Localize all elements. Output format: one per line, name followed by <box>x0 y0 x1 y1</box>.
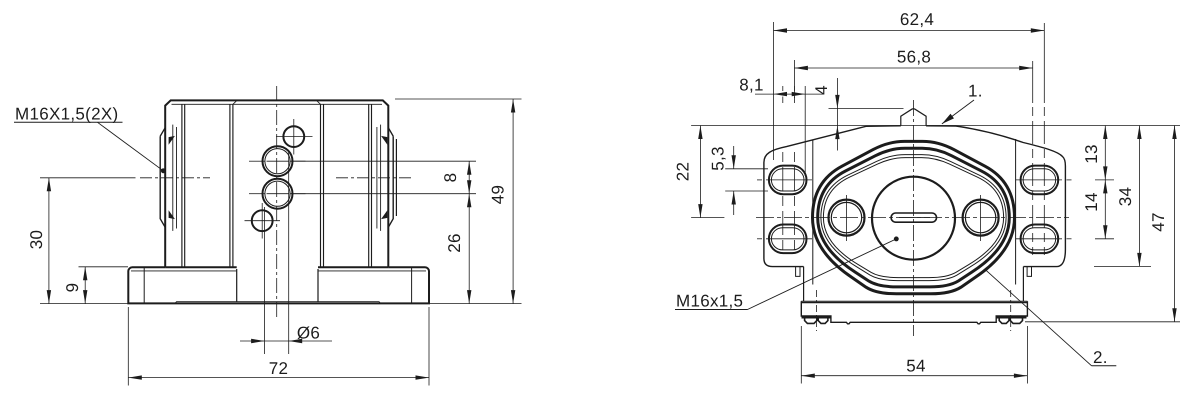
right view: center slot inner line <box>899 217 930 219</box>
svg-text:4: 4 <box>812 85 831 95</box>
right view: dim 56,8 arrow right <box>1019 66 1032 70</box>
left view: base top edge under body <box>165 266 388 268</box>
left view: center pedestal right edge <box>317 269 319 302</box>
right view: boss face inner curve <box>823 158 1003 278</box>
right view: dim 54 ext line right <box>1026 326 1028 384</box>
svg-text:8: 8 <box>441 173 460 183</box>
right view: right slots drill centerline x=1044.3 <box>1043 23 1045 255</box>
right view: center slot <box>891 213 936 222</box>
right view: dim 56,8 arrow left <box>794 66 808 70</box>
right view: boss outer edge curve <box>813 141 1015 293</box>
right view: dim 34 text <box>1116 187 1135 207</box>
right view: plate lower-left edge to base <box>803 267 805 302</box>
right view: dim 5,3 line <box>733 146 735 215</box>
svg-text:Ø6: Ø6 <box>297 324 320 343</box>
svg-text:8,1: 8,1 <box>739 76 764 95</box>
right view: right port vertical centerline <box>980 195 982 241</box>
left view: dim 9 top reference line <box>79 266 129 268</box>
svg-text:54: 54 <box>906 357 926 376</box>
right view: top oval row centerline left <box>757 179 812 181</box>
right view: o-ring groove inner curve <box>821 155 1006 281</box>
right view: left port inner circle <box>831 202 861 232</box>
left view: column top chamfer line left <box>233 100 237 104</box>
right view: bottom reference ext line <box>1025 321 1180 323</box>
right view: horizontal centerline <box>691 217 1069 219</box>
right view: label 1. leader arrowhead <box>942 114 954 124</box>
right view: dim 14 text <box>1082 192 1101 212</box>
left view: dim 8 arrow down <box>467 180 471 194</box>
svg-text:5,3: 5,3 <box>709 146 728 171</box>
right view: dim 34 arrow down <box>1137 253 1141 267</box>
left view: dim 26 arrow up <box>467 194 471 208</box>
left view: right boss top chamfer mark <box>382 137 387 144</box>
right view: base right foot 2 <box>1010 318 1022 323</box>
svg-text:56,8: 56,8 <box>897 48 931 67</box>
left view: label M16X1,5(2X) text <box>15 105 118 124</box>
right view: left port vertical centerline <box>846 195 848 241</box>
right view: dim 13 line <box>1104 126 1106 180</box>
right view: center bore circle <box>872 177 955 260</box>
right view: dim 8,1 line <box>755 93 824 95</box>
left view: housing column edge line 1 <box>181 104 183 267</box>
right view: dim 62,4 arrow left <box>774 28 788 32</box>
left view: dim 30 line <box>48 178 50 304</box>
right view: dim 34 arrow up <box>1137 126 1141 140</box>
svg-text:22: 22 <box>674 162 693 182</box>
right view: base right foot 1 <box>999 318 1009 323</box>
right view: dim 47 line <box>1174 126 1176 322</box>
right view: left port outer circle <box>829 200 865 236</box>
right view: label 2. text <box>1093 348 1108 367</box>
left view: hole 2 horizontal centerline <box>249 193 306 195</box>
right view: top oval row centerline right <box>1016 179 1072 181</box>
right view: dim 5,3 ref line top <box>725 168 768 170</box>
right view: bottom oval row centerline left <box>757 238 812 240</box>
left view: column top chamfer line right <box>317 100 321 104</box>
left view: housing column edge line 4 <box>232 104 234 267</box>
left view: housing column edge line 6 <box>323 104 325 267</box>
left view: base right tab line <box>411 267 413 303</box>
left view: vertical centerline <box>276 86 278 320</box>
right view: bottom oval row centerline right <box>1016 238 1072 240</box>
right view: base block outline <box>801 301 1027 324</box>
right view: dim 47 arrow up <box>1172 126 1176 140</box>
right view: dim 5,3 arrow down <box>732 155 736 169</box>
left view: dim 30 text <box>27 230 46 250</box>
left view: hole 1 horizontal centerline <box>249 160 306 162</box>
left view: small hole top horizontal centerline <box>276 136 313 138</box>
left view: left port boss face <box>160 128 165 228</box>
right view: dim 47 arrow down <box>1172 308 1176 322</box>
right view: dim 56,8 text <box>897 48 931 67</box>
left view: dim 8 text <box>441 173 460 183</box>
left view: left port boss silhouette lines <box>173 125 177 231</box>
right view: top tab <box>901 109 926 126</box>
left view: small hole top vertical centerline <box>293 119 295 155</box>
svg-text:13: 13 <box>1082 144 1101 164</box>
svg-text:62,4: 62,4 <box>900 10 934 29</box>
left view: housing column edge line 7 <box>368 104 370 267</box>
svg-text:2.: 2. <box>1093 348 1108 367</box>
right view: dim 13 text <box>1082 144 1101 164</box>
right view: left slots drill centerline x=794.4 <box>793 86 795 255</box>
svg-text:9: 9 <box>63 283 82 293</box>
svg-text:34: 34 <box>1116 187 1135 207</box>
left view: dim 8 line <box>468 161 470 194</box>
right view: dim 34 ref tick <box>1094 265 1151 267</box>
right view: label M16x1,5 leader line <box>748 239 897 310</box>
left view: large hole 2 outer circle <box>263 179 293 209</box>
right view: label 2. leader line <box>985 269 1092 366</box>
right view: right port outer circle <box>963 200 999 236</box>
right view: dim 62,4 line <box>774 30 1045 32</box>
left view: housing column edge line 2 <box>184 104 186 267</box>
right view: dim 5,3 arrow up <box>732 191 736 205</box>
left view: dim 9 line <box>84 267 86 304</box>
right view: dim 4 apex reference line <box>829 107 904 109</box>
left view: dia6 text <box>297 324 320 343</box>
left view: dia6 ext line right <box>288 150 290 354</box>
right view: bottom-left slotted hole outer <box>769 225 807 254</box>
right view: dim 54 arrow left <box>801 374 815 378</box>
left view: label M16X1,5(2X) leader line <box>98 122 164 171</box>
right view: flange pad right edge <box>1015 139 1017 285</box>
right view: dim 14 ref tick <box>1095 238 1114 240</box>
right view: o-ring groove outer curve <box>818 148 1010 287</box>
right view: dim 4 arrow down <box>835 95 839 109</box>
left view: small hole bottom vertical centerline <box>261 203 263 239</box>
right view: bottom-left slotted hole inner <box>771 228 804 250</box>
right view: dim 13 ref tick <box>1095 179 1114 181</box>
right view: dim 22 line <box>699 126 701 218</box>
left view: dim 26 text <box>445 233 464 253</box>
right view: dim 8,1 text <box>739 76 764 95</box>
right view: dim 14 arrow down <box>1103 225 1107 239</box>
right view: dim 5,3 ref line bottom <box>725 190 768 192</box>
left view: dim 72 arrow left <box>128 375 142 379</box>
right view: left slots drill centerline x=782.8 <box>782 86 784 255</box>
left view: base bottom recess line <box>175 302 381 304</box>
right view: dim 5,3 text <box>709 146 728 171</box>
right view: label M16x1,5 text <box>676 292 743 311</box>
left view: left boss top chamfer mark <box>169 137 174 144</box>
right view: top-left slotted hole inner <box>771 169 804 191</box>
svg-text:72: 72 <box>269 359 289 378</box>
left view: port axis centerline right <box>336 177 414 179</box>
left view: housing column edge line 3 <box>229 104 231 267</box>
right view: label 1. text <box>968 82 983 101</box>
right view: vertical centerline <box>913 100 915 336</box>
left view: base top highlight line <box>131 270 426 272</box>
right view: dim 54 ext line left <box>800 326 802 384</box>
right view: base left foot 2 <box>818 318 828 323</box>
right view: label M16x1,5 underline <box>675 309 748 311</box>
right view: small left tab under plate <box>796 267 800 277</box>
right view: dim 54 arrow right <box>1014 374 1028 378</box>
right view: dim 8,1 arrow right <box>792 92 806 96</box>
right view: top reference ext line <box>691 125 1180 127</box>
left view: dia6 arrow left <box>251 339 265 343</box>
left view: dim 72 arrow right <box>416 375 430 379</box>
right view: flange plate outline <box>764 126 1066 267</box>
left view: right port boss silhouette lines <box>377 125 381 231</box>
left view: large hole 2 inner circle <box>265 181 290 206</box>
right view: base left foot 1 <box>805 318 817 323</box>
right view: label 2. underline <box>1092 365 1117 367</box>
svg-text:26: 26 <box>445 233 464 253</box>
svg-text:47: 47 <box>1149 212 1168 232</box>
left view: dim 72 ext line right <box>428 307 430 386</box>
left view: dim 9 text <box>63 283 82 293</box>
left view: dia6 arrow right <box>289 339 303 343</box>
right view: bottom-right slotted hole outer <box>1021 225 1059 254</box>
right view: dim 56,8 ext line left <box>793 60 795 98</box>
right view: dim 34 line <box>1138 126 1140 267</box>
left view: small hole top <box>283 126 304 147</box>
left view: dim 9 arrow down <box>83 290 87 304</box>
left view: dim 49 arrow down <box>511 290 515 304</box>
left view: port axis centerline left <box>40 177 210 179</box>
left view: base left tab line <box>143 267 145 303</box>
left view: right boss bottom chamfer mark <box>382 212 387 219</box>
left view: dim 49 text <box>489 185 508 205</box>
right view: dim 13 arrow up <box>1103 126 1107 140</box>
right view: label M16x1,5 leader dot <box>894 237 899 242</box>
left view: dim 49 line <box>512 99 514 304</box>
left view: top reference extension line <box>395 98 522 100</box>
left view: dim 72 ext line left <box>127 307 129 386</box>
left view: small hole bottom horizontal centerline <box>245 220 281 222</box>
right view: top-right slotted hole outer <box>1021 166 1059 195</box>
right view: dim 4 arrow up <box>835 126 839 140</box>
svg-text:M16X1,5(2X): M16X1,5(2X) <box>15 105 118 124</box>
right view: top-right slotted hole inner <box>1023 169 1056 191</box>
right view: dim 4 line <box>836 78 838 151</box>
right view: dim 62,4 text <box>900 10 934 29</box>
left view: dim 8 arrow up <box>467 161 471 175</box>
right view: dim 14 arrow up <box>1103 180 1107 194</box>
right view: dim 62,4 arrow right <box>1031 28 1045 32</box>
left view: large hole 1 inner circle <box>265 149 290 174</box>
left view: large hole 1 outer circle <box>263 146 293 176</box>
left view: bottom reference extension line <box>40 303 522 305</box>
left view: small hole bottom <box>252 210 273 231</box>
svg-text:M16x1,5: M16x1,5 <box>676 292 743 311</box>
left view: dim 72 text <box>269 359 289 378</box>
right view: base top edge <box>801 301 1027 302</box>
left view: center pedestal left edge <box>236 269 238 302</box>
left view: label M16X1,5(2X) leader dot <box>161 168 166 173</box>
left view: label M16X1,5(2X) underline <box>14 121 123 123</box>
right view: base bottom edge thick right <box>996 316 1026 318</box>
left view: dim 72 line <box>128 377 429 379</box>
right view: dim 14 line <box>1104 180 1106 239</box>
left view: dim 30 arrow down <box>47 290 51 304</box>
right view: dim 47 text <box>1149 212 1168 232</box>
right view: flange pad left edge <box>812 140 814 285</box>
right view: dim 56,8 line <box>794 67 1032 69</box>
right view: base left foot centerline <box>815 290 817 331</box>
left view: housing column edge line 8 <box>371 104 373 267</box>
left view: housing body outline <box>165 100 388 267</box>
left view: left boss bottom chamfer mark <box>169 212 174 219</box>
svg-text:14: 14 <box>1082 192 1101 212</box>
right view: dim 8,1 ext line right <box>804 86 806 176</box>
right view: small right tab under plate <box>1027 267 1031 277</box>
left view: dim 9 arrow up <box>83 267 87 281</box>
left view: housing column edge line 5 <box>320 104 322 267</box>
right view: plate lower-right edge to base <box>1022 267 1024 302</box>
left view: dia6 ext line left <box>264 207 266 354</box>
right view: label 1. leader line <box>942 100 974 124</box>
right view: right port inner circle <box>965 202 995 232</box>
right view: dim 62,4 ext line left <box>773 22 775 160</box>
right view: dim 22 arrow up <box>698 126 702 140</box>
right view: dim 8,1 arrow left <box>774 92 788 96</box>
right view: dim 54 text <box>906 357 926 376</box>
right view: right slots drill centerline x=1032.7 <box>1032 61 1034 255</box>
right view: dim 54 line <box>801 375 1027 377</box>
left view: base plate outline <box>128 267 429 303</box>
right view: top-left slotted hole outer <box>769 166 807 195</box>
right view: base right foot centerline <box>1010 290 1012 331</box>
right view: base bottom edge thick left <box>802 316 831 318</box>
right view: dim 22 text <box>674 162 693 182</box>
svg-text:1.: 1. <box>968 82 983 101</box>
left view: dia6 dim line <box>240 340 332 342</box>
svg-text:49: 49 <box>489 185 508 205</box>
left view: hole centerline ext to dim 8 bottom <box>291 193 476 195</box>
left view: hole centerline ext to dim 8 top <box>291 160 476 162</box>
right view: dim 22 arrow down <box>698 204 702 218</box>
left view: dim 26 arrow down <box>467 290 471 304</box>
right view: dim 4 text <box>812 85 831 95</box>
left view: dim 49 arrow up <box>511 99 515 113</box>
right view: dim 13 arrow down <box>1103 166 1107 180</box>
left view: dim 26 line <box>468 194 470 304</box>
right view: bottom-right slotted hole inner <box>1023 228 1056 250</box>
left view: body top inner edge line <box>172 103 383 105</box>
left view: dim 30 arrow up <box>47 178 51 192</box>
left view: right port boss face <box>388 128 396 228</box>
svg-text:30: 30 <box>27 230 46 250</box>
